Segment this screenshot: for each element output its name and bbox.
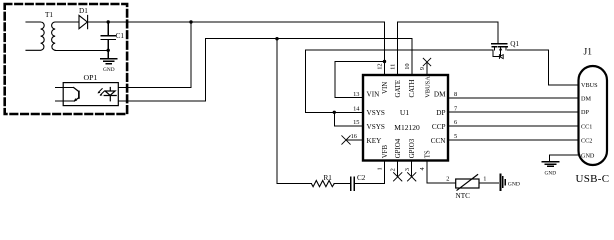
U1 pin 9 name VBUSA (rotated)	[424, 76, 431, 98]
label USB-C	[576, 173, 610, 185]
wire U1 CCP pin 6 to J1	[448, 125, 579, 127]
wire VIN net: diode cathode to U1 pin 12	[88, 21, 385, 23]
optocoupler OP1 LED	[104, 88, 116, 101]
svg-text:VIN: VIN	[367, 91, 381, 99]
thermistor NTC body	[456, 179, 479, 188]
svg-text:6: 6	[454, 119, 457, 126]
U1 pin 6 name CCP	[432, 123, 446, 131]
svg-text:CCP: CCP	[432, 123, 446, 131]
U1 pin 2 GPIO4 no-connect stub	[397, 161, 399, 177]
svg-text:1: 1	[377, 167, 384, 170]
svg-text:9: 9	[419, 67, 426, 70]
transformer T1 label	[45, 11, 53, 19]
svg-text:T1: T1	[45, 11, 53, 19]
node junction VIN pin13 branch	[383, 60, 386, 63]
svg-text:GND: GND	[581, 153, 595, 160]
U1 pin number 11 (rotated)	[390, 64, 397, 70]
svg-text:13: 13	[353, 91, 359, 98]
label NTC pin 1	[483, 175, 486, 182]
transistor Q1 body connection with body diode	[493, 47, 501, 57]
svg-text:C2: C2	[357, 174, 366, 182]
connector J1 pin label DM	[581, 95, 591, 102]
U1 pin 13 name VIN	[367, 91, 381, 99]
connector J1 body (USB-C)	[579, 66, 608, 165]
transistor Q1 body diode	[499, 55, 503, 59]
U1 pin 9 VBUSA no-connect stub	[426, 62, 428, 75]
svg-text:CATH: CATH	[409, 79, 416, 97]
no-connect X on GPIO4	[394, 173, 402, 181]
U1 pin 15 name VSYS	[367, 123, 385, 131]
transistor Q1 channel segments	[492, 46, 507, 48]
svg-text:2: 2	[446, 175, 449, 182]
U1 pin 1 name VFB (rotated)	[382, 144, 389, 158]
svg-text:GPIO3: GPIO3	[409, 138, 416, 158]
U1 pin 8 name DM	[434, 91, 446, 99]
connector J1 pin label CC2	[581, 138, 592, 145]
U1 pin number 12 (rotated)	[377, 63, 384, 69]
U1 pin 7 name DP	[436, 109, 445, 117]
U1 pin number 2 (rotated)	[390, 168, 397, 171]
connector J1 pin label VBUS	[581, 82, 598, 89]
svg-text:16: 16	[351, 133, 357, 140]
wire CATH branch down to R1	[277, 39, 312, 184]
U1 pin 11 name GATE (rotated)	[395, 80, 402, 98]
U1 pin number 13	[353, 91, 359, 98]
wire C2 to U1 VFB pin 1	[354, 161, 384, 184]
no-connect X on KEY	[342, 136, 350, 144]
U1 pin number 8	[454, 91, 457, 98]
svg-text:VFB: VFB	[382, 144, 389, 158]
svg-text:D1: D1	[79, 7, 88, 15]
IC U1 box	[363, 75, 448, 161]
capacitor C2 label	[357, 174, 366, 182]
U1 pin number 7	[454, 105, 458, 112]
svg-text:GND: GND	[545, 171, 557, 177]
connector J1 pin label CC1	[581, 124, 592, 131]
svg-text:11: 11	[390, 64, 397, 70]
svg-text:1: 1	[483, 175, 486, 182]
U1 pin number 9 (rotated)	[419, 67, 426, 70]
U1 pin number 14	[353, 105, 360, 112]
wire U1 pin 12 lead	[384, 22, 386, 75]
wire J1 GND pin to ground	[549, 155, 578, 161]
svg-text:DM: DM	[434, 91, 446, 99]
U1 pin 16 name KEY	[367, 137, 383, 145]
optocoupler OP1 phototransistor	[55, 88, 73, 102]
U1 pin number 16	[351, 133, 357, 140]
U1 pin 3 GPIO3 no-connect stub	[411, 161, 413, 177]
svg-text:M12120: M12120	[394, 123, 420, 132]
svg-text:CC1: CC1	[581, 124, 592, 131]
wire NTC to ground	[479, 182, 498, 184]
svg-text:2: 2	[390, 168, 397, 171]
svg-text:VSYS: VSYS	[367, 123, 385, 131]
svg-text:OP1: OP1	[84, 73, 98, 82]
connector J1 pin label GND	[581, 153, 595, 160]
node junction C1 tap	[107, 20, 110, 23]
svg-text:VBUS: VBUS	[581, 82, 598, 89]
ground GND under C1	[101, 59, 117, 64]
svg-text:U1: U1	[400, 108, 409, 117]
label NTC pin 2	[446, 175, 449, 182]
U1 pin 4 name TS (rotated)	[424, 150, 431, 158]
node junction VSYS pin15 branch	[333, 111, 336, 114]
svg-text:USB-C: USB-C	[576, 173, 610, 185]
transformer T1 secondary winding	[52, 22, 56, 50]
svg-text:CCN: CCN	[431, 137, 447, 145]
IC U1 name	[400, 108, 409, 117]
dashed enclosure box	[5, 4, 127, 114]
capacitor C1	[101, 22, 115, 58]
diode D1	[79, 15, 88, 28]
wire U1 pin 15 to pin 14	[334, 112, 363, 126]
U1 pin 12 name VIN (rotated)	[382, 82, 389, 94]
no-connect X on GPIO3	[408, 173, 416, 181]
U1 pin number 10 (rotated)	[404, 63, 411, 69]
svg-text:DP: DP	[436, 109, 445, 117]
wire OP1 collector to VIN net	[118, 22, 191, 88]
wire Q1 drain to J1 VBUS	[507, 50, 578, 85]
svg-text:GND: GND	[508, 181, 520, 187]
optocoupler OP1 label	[84, 73, 98, 82]
U1 pin number 3 (rotated)	[404, 168, 411, 171]
svg-text:10: 10	[404, 63, 411, 69]
svg-text:GPIO4: GPIO4	[395, 138, 402, 158]
resistor R1	[312, 181, 335, 187]
svg-text:TS: TS	[424, 150, 431, 158]
svg-text:12: 12	[377, 63, 384, 69]
U1 pin number 1 (rotated)	[377, 167, 384, 170]
wire OP1 emitter/LED cathode to CATH	[118, 39, 412, 101]
capacitor C1 label	[116, 32, 125, 40]
connector J1 label	[584, 48, 593, 58]
svg-text:GND: GND	[103, 67, 115, 73]
transistor Q1 source/drain connections	[494, 47, 506, 50]
svg-text:KEY: KEY	[367, 137, 383, 145]
thermistor NTC diagonal	[457, 175, 478, 191]
node junction R1 branch	[275, 37, 278, 40]
diode D1 label	[79, 7, 88, 15]
wire VSYS: U1 pin 14 to Q1 source	[306, 50, 492, 112]
U1 pin 14 name VSYS	[367, 109, 385, 117]
svg-text:R1: R1	[324, 174, 333, 182]
svg-text:8: 8	[454, 91, 457, 98]
U1 pin 10 name CATH (rotated)	[409, 79, 416, 97]
svg-text:15: 15	[353, 119, 359, 126]
svg-text:3: 3	[404, 168, 411, 171]
svg-text:NTC: NTC	[456, 192, 471, 200]
U1 pin 3 name GPIO3 (rotated)	[409, 138, 416, 158]
wire U1 TS pin 4 to NTC	[427, 161, 456, 184]
resistor R1 label	[324, 174, 333, 182]
wire R1 to C2	[334, 183, 350, 185]
svg-text:C1: C1	[116, 32, 125, 40]
thermistor NTC label	[456, 192, 471, 200]
node junction T1 bottom / C1	[107, 49, 110, 52]
svg-text:DP: DP	[581, 109, 589, 116]
svg-text:Q1: Q1	[510, 40, 519, 48]
U1 pin 5 name CCN	[431, 137, 447, 145]
wire U1 CCN pin 5 to J1	[448, 139, 579, 141]
node junction OP1 collector tap	[189, 20, 192, 23]
U1 pin number 5	[454, 133, 457, 140]
transformer T1 primary winding	[26, 22, 44, 50]
U1 pin 2 name GPIO4 (rotated)	[395, 138, 402, 158]
wire T1 secondary bottom to C1 junction	[55, 49, 108, 51]
U1 pin number 4 (rotated)	[419, 167, 426, 171]
wire U1 DP pin 7 to J1	[448, 111, 579, 113]
connector J1 pin label DP	[581, 109, 589, 116]
ground GND under J1	[542, 161, 558, 163]
svg-text:GATE: GATE	[395, 80, 402, 98]
transistor Q1 label	[510, 40, 519, 48]
svg-text:J1: J1	[584, 48, 593, 58]
svg-text:14: 14	[353, 105, 360, 112]
svg-text:DM: DM	[581, 95, 591, 102]
svg-text:VSYS: VSYS	[367, 109, 385, 117]
transistor Q1 gate bar	[492, 43, 507, 45]
ground GND right of NTC (sideways)	[499, 174, 501, 190]
wire VIN branch to U1 pin 13	[335, 62, 385, 98]
IC U1 part number M12120	[394, 123, 420, 132]
capacitor C2	[351, 177, 355, 190]
wire T1 secondary top to diode D1	[55, 21, 79, 23]
svg-text:CC2: CC2	[581, 138, 592, 145]
optocoupler OP1 box	[63, 83, 118, 106]
wire GATE: U1 pin 11 to Q1 gate	[398, 22, 498, 75]
U1 pin number 15	[353, 119, 359, 126]
U1 pin 16 KEY no-connect stub	[346, 139, 363, 141]
svg-text:VBUSA: VBUSA	[424, 76, 431, 98]
no-connect X on VBUSA	[423, 58, 431, 66]
U1 pin number 6	[454, 119, 457, 126]
svg-text:VIN: VIN	[382, 82, 389, 94]
optocoupler OP1 light arrows	[98, 89, 104, 95]
wire U1 DM pin 8 to J1	[448, 97, 579, 99]
svg-text:5: 5	[454, 133, 457, 140]
